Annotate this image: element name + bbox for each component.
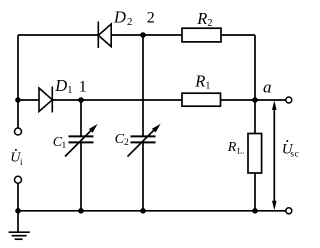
svg-text:1: 1 (79, 78, 87, 95)
svg-text:R: R (227, 140, 237, 155)
svg-text:2: 2 (147, 10, 155, 27)
svg-text:D: D (113, 8, 126, 27)
svg-text:R: R (194, 72, 205, 91)
svg-text:D: D (54, 76, 67, 95)
svg-text:2: 2 (124, 138, 129, 148)
svg-text:1: 1 (67, 85, 72, 96)
svg-text:2: 2 (127, 16, 133, 28)
svg-text:sc: sc (290, 149, 299, 159)
svg-text:1: 1 (205, 80, 210, 91)
svg-text:L.: L. (237, 145, 244, 155)
svg-text:R: R (196, 9, 207, 28)
svg-text:a: a (263, 77, 272, 96)
svg-text:2: 2 (207, 18, 212, 29)
svg-text:1: 1 (62, 141, 67, 151)
